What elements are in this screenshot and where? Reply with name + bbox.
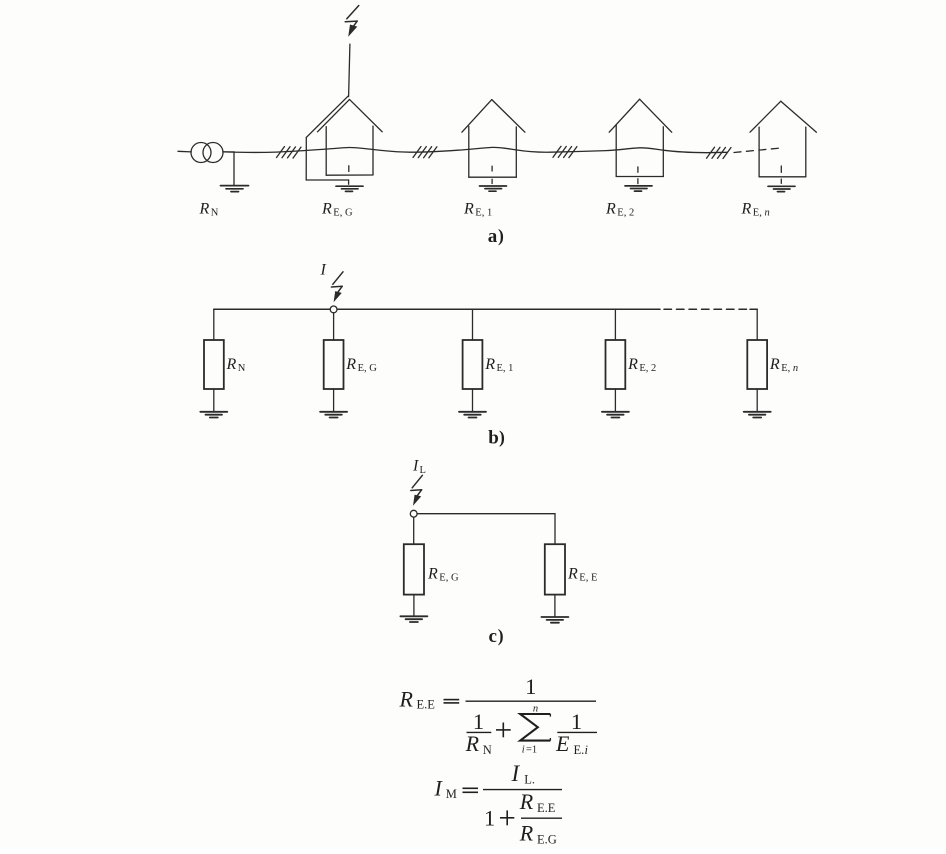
svg-text:E, 2: E, 2: [639, 363, 656, 374]
transformer T (supply source): [191, 143, 223, 163]
svg-text:R: R: [226, 356, 237, 373]
svg-text:): ): [498, 226, 504, 246]
svg-text:E, G: E, G: [439, 573, 459, 584]
ground: below R_E,2: [602, 412, 629, 418]
label R_E,E (part c): [567, 566, 597, 584]
line-break hash marks 1: [277, 147, 302, 159]
wire: dashed earthing conductor of house R_E,G: [348, 166, 350, 184]
svg-text:I: I: [320, 262, 327, 279]
svg-text:R: R: [484, 356, 495, 373]
svg-text:R: R: [741, 201, 752, 218]
equation 1: R_E,E = 1 / (1/R_N + sum 1/E_E,i): [399, 674, 589, 757]
ground: below R_E,n: [744, 412, 771, 418]
svg-text:L: L: [420, 465, 426, 476]
svg-text:i: i: [522, 745, 525, 756]
svg-text:E, n: E, n: [781, 363, 798, 374]
wire: transformer to line, neutral drop at node: [223, 152, 234, 185]
svg-text:R: R: [465, 731, 480, 756]
svg-text:I: I: [434, 776, 444, 801]
caption b): [488, 427, 505, 448]
wire: stub left of transformer: [178, 150, 191, 153]
label I_L: [412, 458, 426, 477]
line-break hash marks 4: [707, 147, 732, 158]
svg-text:E, G: E, G: [358, 363, 378, 374]
lightning current arrow (strike into node): [331, 272, 343, 302]
svg-text:): ): [499, 427, 505, 447]
label R_E,1 (part b): [484, 356, 513, 374]
svg-text:E.E: E.E: [537, 801, 556, 815]
svg-text:1: 1: [484, 805, 495, 830]
svg-text:I: I: [511, 761, 521, 786]
resistor R_E,n (part b): [747, 309, 767, 411]
svg-text:E.E: E.E: [417, 698, 436, 712]
ground: below R_E,E (part c): [541, 617, 568, 623]
wire: bus (dashed part): [664, 308, 757, 310]
label R_E,2 (part b): [627, 356, 656, 374]
wire: top link from node to R_E,E branch: [417, 514, 555, 545]
svg-text:N: N: [483, 743, 492, 757]
label R_E,2 (part a): [605, 201, 634, 219]
wire: dashed line continuation to last house: [734, 148, 779, 152]
resistor R_E,G (part b): [324, 313, 344, 411]
wire: node down to R_E,G: [413, 517, 415, 544]
ground: below R_N: [200, 412, 227, 418]
house R_E,G (struck building with air-termination): [306, 96, 382, 180]
svg-text:R: R: [627, 356, 638, 373]
house R_E,2: [609, 99, 672, 176]
svg-text:R: R: [321, 201, 332, 218]
wire: dashed earthing conductor of house R_E,2: [637, 167, 639, 184]
label R_E,G (part a): [321, 201, 353, 219]
svg-text:n: n: [533, 704, 538, 715]
svg-text:R: R: [519, 789, 534, 814]
house R_E,1: [462, 100, 525, 178]
svg-text:a: a: [488, 226, 498, 247]
svg-text:R: R: [567, 566, 578, 583]
svg-text:E.G: E.G: [537, 833, 557, 847]
lightning current arrow I_L: [411, 475, 423, 505]
ground: earth of house R_E,n: [768, 186, 795, 191]
node: injection point: [330, 306, 337, 313]
summation sigma: [520, 714, 550, 741]
svg-text:i: i: [585, 743, 589, 757]
svg-text:1: 1: [571, 709, 582, 734]
svg-text:E: E: [555, 731, 570, 756]
svg-text:R: R: [199, 201, 210, 218]
svg-text:=1: =1: [526, 745, 537, 756]
ground: below R_E,G (part c): [400, 616, 427, 622]
equation 2: I_M = I_L / (1 + R_E,E/R_E,G): [434, 761, 557, 847]
label R_E,n (part b): [769, 356, 798, 374]
svg-text:R: R: [605, 201, 616, 218]
wire: dashed earthing conductor of house R_E,1: [491, 166, 493, 183]
lightning strike above house R_E,G: [345, 6, 359, 37]
svg-text:R: R: [427, 566, 438, 583]
svg-text:E, 2: E, 2: [617, 208, 634, 219]
svg-text:E, E: E, E: [579, 573, 597, 584]
ground: earth of house R_E,G: [336, 186, 363, 191]
ground: earth of house R_E,2: [625, 186, 652, 191]
wire: dashed earthing conductor of house R_E,n: [780, 166, 782, 183]
svg-text:I: I: [412, 458, 419, 475]
svg-text:1: 1: [525, 674, 536, 699]
svg-text:b: b: [488, 428, 499, 449]
svg-text:R: R: [463, 201, 474, 218]
caption c): [489, 626, 504, 647]
wire: overhead power line (wavy): [223, 147, 727, 152]
svg-text:E, 1: E, 1: [497, 363, 514, 374]
svg-text:M: M: [446, 787, 457, 801]
resistor R_N (part b): [204, 309, 224, 411]
ground: below R_E,1: [459, 412, 486, 418]
svg-text:R: R: [769, 356, 780, 373]
svg-text:L.: L.: [524, 773, 535, 787]
svg-text:N: N: [211, 208, 219, 219]
svg-text:): ): [498, 626, 504, 646]
label I (injected current): [320, 262, 327, 279]
node: injection point (part c): [410, 510, 417, 517]
label R_E,G (part c): [427, 566, 459, 584]
resistor R_E,G (part c): [404, 544, 424, 616]
label R_E,G (part b): [345, 356, 377, 374]
svg-text:E, G: E, G: [333, 208, 353, 219]
svg-text:R: R: [519, 821, 534, 846]
resistor R_E,1 (part b): [463, 309, 483, 411]
caption a): [488, 226, 504, 247]
ground: below R_E,G: [320, 412, 347, 418]
svg-text:R: R: [399, 687, 414, 712]
label R_E,n (part a): [741, 201, 770, 219]
label R_N (part a): [199, 201, 219, 219]
resistor R_E,E (part c): [545, 544, 565, 616]
ground: earth of house R_E,1: [480, 186, 507, 191]
house R_E,n: [750, 101, 816, 177]
ground: transformer neutral earth: [221, 186, 249, 192]
label R_N (part b): [226, 356, 246, 374]
svg-text:E.: E.: [574, 743, 585, 757]
wire: down conductor from strike to roof apex: [349, 44, 350, 96]
svg-text:c: c: [489, 626, 497, 647]
line-break hash marks 2: [413, 147, 437, 158]
resistor R_E,2 (part b): [606, 309, 626, 411]
svg-text:E, 1: E, 1: [475, 208, 492, 219]
svg-text:R: R: [345, 356, 356, 373]
label R_E,1 (part a): [463, 201, 492, 219]
svg-text:N: N: [238, 363, 246, 374]
svg-text:E, n: E, n: [753, 208, 770, 219]
wire: bus (solid part): [214, 308, 660, 310]
line-break hash marks 3: [553, 146, 577, 157]
